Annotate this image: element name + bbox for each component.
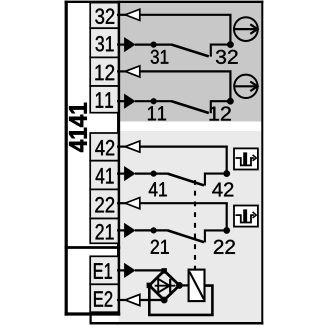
node 42 bbox=[223, 170, 230, 177]
terminal box 31 bbox=[90, 28, 118, 57]
device frame left edge bbox=[65, 1, 68, 316]
terminal box 12 bbox=[90, 57, 118, 86]
wire 12 vertical bbox=[229, 71, 231, 101]
circle-arrow symbol 2 bbox=[234, 75, 257, 98]
node 21 pivot bbox=[151, 227, 157, 233]
open arrow 32 bbox=[125, 9, 140, 20]
filled arrow 21 bbox=[124, 223, 135, 238]
upper contact zone (dark gray) bbox=[119, 1, 262, 122]
return wire loop bbox=[149, 286, 212, 315]
node diamond left bbox=[147, 283, 152, 288]
label 41 bbox=[149, 182, 167, 196]
mechanical link dashed line bbox=[194, 180, 196, 270]
relay coil K bbox=[189, 270, 205, 302]
wire diamond right to relay bbox=[179, 284, 189, 286]
circle-arrow symbol 1 bbox=[234, 17, 258, 41]
label 12 bbox=[210, 107, 231, 121]
zone top border bbox=[65, 1, 264, 3]
node E2 / diamond bottom bbox=[161, 297, 168, 304]
wire 21 bbox=[135, 229, 168, 231]
zone bottom border bbox=[90, 322, 264, 325]
open arrow 12 bbox=[125, 66, 140, 77]
wire stub 12 bbox=[117, 70, 127, 72]
wire stub E2 bbox=[117, 299, 127, 301]
wire 22 horizontal bbox=[140, 202, 228, 204]
wire stub E1 bbox=[117, 269, 125, 271]
wire stub 42 bbox=[117, 146, 127, 148]
open arrow 22 bbox=[125, 198, 140, 209]
node 11 pivot bbox=[151, 98, 157, 104]
terminal box E1 bbox=[90, 256, 118, 284]
wire 12 horizontal bbox=[140, 70, 232, 72]
filled arrow 41 bbox=[124, 166, 135, 181]
wire 11 bbox=[135, 100, 172, 102]
wire 41 bbox=[135, 173, 168, 175]
label 21 bbox=[151, 240, 169, 254]
terminal box 41 bbox=[90, 161, 118, 190]
filled arrow 31 bbox=[124, 37, 135, 52]
relay diagonal bbox=[189, 272, 204, 300]
contact blade 31-32 bbox=[172, 45, 209, 57]
device frame divider above E-section bbox=[65, 246, 121, 249]
device frame right edge bbox=[117, 1, 120, 316]
label 32 bbox=[216, 50, 238, 64]
node E1 / diamond top bbox=[162, 268, 167, 273]
wire stub 22 bbox=[117, 202, 127, 204]
wire 32 horizontal bbox=[140, 14, 232, 16]
contact blade 11-12 bbox=[172, 101, 209, 113]
filled arrow 11 bbox=[124, 94, 135, 109]
node 22 bbox=[223, 227, 230, 234]
wire 22 vertical bbox=[226, 203, 228, 230]
wire E1 bbox=[135, 269, 164, 271]
wire 42 vertical bbox=[226, 147, 228, 174]
node 31 pivot bbox=[151, 42, 157, 48]
label 22 bbox=[214, 240, 235, 254]
open arrow E2 bbox=[125, 294, 140, 305]
forced-contact symbol box 2 bbox=[234, 206, 258, 227]
wire 32 vertical bbox=[229, 15, 231, 45]
terminal box 21 bbox=[90, 219, 118, 244]
wire 42 horizontal bbox=[140, 146, 228, 148]
label 42 bbox=[212, 182, 233, 196]
forced-contact symbol box 1 bbox=[234, 148, 258, 169]
label 31 bbox=[151, 50, 169, 64]
open arrow 42 bbox=[125, 141, 140, 152]
rectifier diamond bbox=[149, 271, 179, 300]
wire stub 21 bbox=[117, 229, 125, 231]
node diamond right bbox=[176, 282, 183, 289]
terminal box 22 bbox=[90, 189, 118, 218]
fixed contact 42 bbox=[205, 174, 227, 186]
contact blade 21-22 bbox=[168, 230, 204, 242]
wire stub 32 bbox=[117, 14, 127, 16]
filled arrow E1 bbox=[124, 263, 135, 278]
node 12 bbox=[227, 98, 234, 105]
zone right border bbox=[261, 1, 263, 325]
wire E2 bbox=[140, 299, 164, 301]
node 32 bbox=[227, 41, 234, 48]
fixed contact 22 bbox=[205, 230, 227, 242]
lower contact zone (light gray) bbox=[119, 131, 262, 323]
zone bottom-left stub bbox=[89, 313, 91, 325]
terminal box 42 bbox=[90, 133, 118, 161]
fixed contact 12 bbox=[211, 101, 231, 113]
contact blade 41-42 bbox=[168, 174, 204, 186]
label 11 bbox=[148, 106, 166, 120]
wire stub 11 bbox=[117, 100, 125, 102]
diode inside rectifier bbox=[155, 279, 176, 293]
wire stub 41 bbox=[117, 173, 125, 175]
device frame bottom edge bbox=[65, 312, 121, 315]
label 4141 bbox=[69, 103, 87, 152]
wire stub 31 bbox=[117, 43, 125, 45]
terminal box 32 bbox=[90, 3, 118, 29]
node 41 pivot bbox=[151, 171, 157, 177]
wire 31 bbox=[135, 43, 172, 45]
terminal box E2 bbox=[90, 284, 118, 312]
terminal box 11 bbox=[90, 86, 118, 113]
fixed contact 32 bbox=[211, 45, 231, 57]
